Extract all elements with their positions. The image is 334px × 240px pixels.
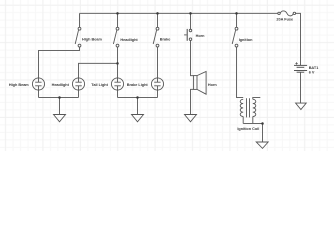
svg-text:Tail Light: Tail Light — [91, 83, 108, 87]
svg-text:High Beam: High Beam — [9, 83, 29, 87]
svg-text:20A Fuse: 20A Fuse — [276, 17, 293, 21]
svg-text:BAT1: BAT1 — [309, 66, 319, 70]
svg-text:Ignition Coil: Ignition Coil — [237, 127, 259, 131]
svg-text:Horn: Horn — [208, 83, 218, 87]
svg-text:Horn: Horn — [196, 34, 206, 38]
svg-text:6 V: 6 V — [309, 70, 315, 74]
svg-text:High Beam: High Beam — [82, 38, 102, 42]
svg-text:Ignition: Ignition — [239, 38, 253, 42]
svg-text:Headlight: Headlight — [52, 83, 70, 87]
svg-text:Headlight: Headlight — [120, 38, 138, 42]
svg-text:Brake Light: Brake Light — [127, 83, 149, 87]
svg-text:Brake: Brake — [160, 38, 171, 42]
